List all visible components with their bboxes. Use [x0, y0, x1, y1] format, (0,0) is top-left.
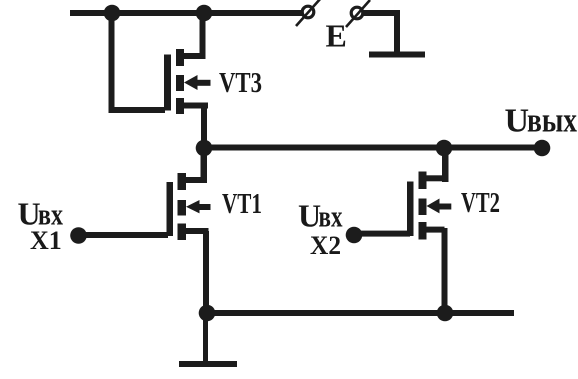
ground: [179, 361, 237, 367]
wire VT3 source down to output node: [201, 105, 207, 148]
transistor VT2: [407, 172, 451, 240]
node input X1 terminal dot: [70, 227, 87, 244]
wire VT3 drain to supply rail: [200, 13, 206, 59]
transistor VT1: [167, 173, 211, 240]
svg-text:вых: вых: [527, 101, 577, 140]
wire top supply rail: [70, 10, 302, 16]
node bottom junction left: [199, 305, 216, 322]
node input X2 terminal dot: [346, 227, 363, 244]
svg-text:VT2: VT2: [461, 188, 500, 219]
terminal E plus (open circle with slash): [296, 0, 321, 26]
svg-text:вх: вх: [319, 199, 343, 234]
wire from E minus terminal to common bar: [363, 13, 397, 52]
svg-text:VT3: VT3: [219, 68, 262, 99]
wire VT2 drain up to output node: [442, 148, 449, 182]
node output junction: [196, 140, 213, 157]
svg-text:E: E: [326, 18, 347, 54]
node output terminal dot: [534, 140, 551, 157]
wire VT1 drain up to output node: [201, 148, 208, 183]
wire input X1 to VT1 gate: [79, 232, 168, 238]
transistor VT3: [164, 49, 211, 114]
node bottom junction right: [437, 305, 454, 322]
wire input X2 to VT2 gate: [354, 231, 410, 237]
wire to ground: [203, 313, 208, 362]
node junction VT2 drain tap: [436, 140, 453, 157]
wire output line: [204, 145, 542, 151]
wire VT1 source down to bottom rail: [203, 231, 209, 313]
wire feedback from top rail to VT3 gate: [112, 13, 166, 110]
svg-text:U: U: [505, 103, 530, 140]
terminal E minus (open circle with slash): [346, 0, 370, 27]
wire bottom common rail: [204, 310, 514, 316]
svg-text:X1: X1: [30, 226, 62, 255]
node junction top (VT3 drain tap): [196, 5, 213, 22]
ground bar of source E: [369, 52, 425, 58]
wire VT2 source down to bottom rail: [442, 228, 448, 313]
svg-text:VT1: VT1: [222, 188, 262, 220]
svg-text:X2: X2: [310, 231, 341, 260]
node junction top-left (feedback tap): [104, 5, 121, 22]
